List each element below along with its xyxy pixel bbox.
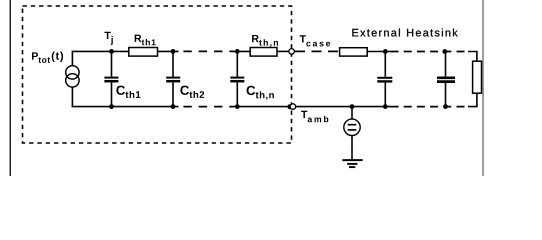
junction Cth,n top [235,49,240,54]
junction Cth,n bottom [235,104,240,109]
resistor Rth,n [250,48,277,57]
voltage source Tamb [344,119,360,135]
resistor heatsink Rth horizontal [340,48,368,56]
label P_tot(t) [32,52,63,63]
wire bottom right corner to vertical resistor [468,93,477,106]
wire Cth,n branch bottom [236,82,238,106]
wire heatsink cap1 branch top [384,52,386,77]
capacitor Cth1 [104,78,118,82]
wire top rail to Rth,n [233,50,250,52]
wire top rail Rth1 to Cth2 node [158,50,179,52]
label Cth2 value [180,86,204,98]
junction heatsink cap2 top [442,49,447,54]
junction at Tamb node [287,104,292,109]
wire heatsink cap2 branch bottom [445,83,447,107]
resistor Rth1 [129,48,158,57]
current source P_tot(t) [66,66,79,87]
wire Tamb source branch top [351,107,353,119]
wire source branch bottom [71,87,73,107]
wire bottom rail dashed omitted stages [177,106,234,108]
node Tamb terminal circle [290,104,296,110]
wire top rail Tj to Rth1 [72,50,128,52]
label External Heatsink [352,29,457,37]
label Cth,n value [247,86,274,100]
junction Tj bottom [109,104,114,109]
wire heatsink resistor to cap node [367,51,390,53]
table frame right border [482,0,484,176]
junction Cth2 bottom [171,104,176,109]
capacitor Cth,n [230,78,244,82]
junction Tamb source [350,104,355,109]
wire heatsink cap2 branch top [445,52,447,77]
label Rth1 value [135,35,156,46]
wire Cth1 branch bottom [111,82,113,106]
label node Tj [105,32,113,45]
capacitor heatsink Cth1 [377,78,392,82]
label node Tamb [301,111,328,123]
wire bottom rail to Tamb node [233,106,290,108]
wire top right corner to vertical resistor [468,52,477,62]
wire heatsink cap1 branch bottom [384,83,386,107]
node Tcase terminal circle [289,49,295,55]
wire Cth1 branch top [111,51,113,76]
junction heatsink cap1 top [383,49,388,54]
wire top rail dashed heatsink [391,51,469,53]
wire bottom rail Tamb to heatsink [296,106,391,108]
table frame left border [9,0,11,176]
wire Cth,n branch top [236,51,238,76]
junction Cth2 top [171,49,176,54]
wire Cth2 branch bottom [172,82,174,106]
wire bottom rail left section [72,106,178,108]
ground [342,160,362,167]
capacitor Cth2 [166,78,180,82]
wire Cth2 branch top [172,51,174,76]
capacitor heatsink Cth2 [437,78,455,82]
resistor heatsink vertical [473,61,482,93]
junction heatsink cap1 bottom [383,104,388,109]
wire dashed Tcase to heatsink resistor [295,50,340,52]
wire top rail dashed omitted stages [177,50,234,52]
dashed device boundary box [23,6,292,143]
wire top rail Rth,n to Tcase [277,50,289,52]
label node Tcase [300,35,330,46]
label Rth,n value [252,35,278,47]
junction Tj top [109,49,114,54]
wire bottom rail dashed heatsink [391,106,469,108]
label Cth1 value [116,86,140,98]
wire source to ground [351,136,353,159]
wire source branch top [71,51,73,66]
junction heatsink cap2 bottom [443,104,448,109]
